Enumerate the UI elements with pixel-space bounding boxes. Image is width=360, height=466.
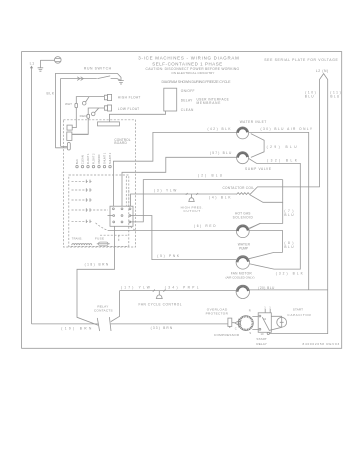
wire hot gas feeder (6) RED xyxy=(108,229,237,231)
wire L1 vertical feeder xyxy=(31,67,33,324)
svg-text:WATER INLET: WATER INLET xyxy=(240,120,267,124)
start capacitor xyxy=(271,308,311,328)
wire (30) BLU air only xyxy=(249,132,309,290)
svg-text:CLEAN: CLEAN xyxy=(81,155,85,164)
board internal dashed wiring xyxy=(96,223,108,230)
board pin connectors P1-P7 with labels xyxy=(75,152,112,168)
wire L2 loop xyxy=(270,74,328,334)
svg-text:840002058 REV03: 840002058 REV03 xyxy=(303,342,340,346)
svg-text:RELAY: RELAY xyxy=(256,342,266,346)
svg-text:S: S xyxy=(249,331,251,335)
user interface membrane xyxy=(164,88,229,112)
svg-text:(AIR COOLED ONLY): (AIR COOLED ONLY) xyxy=(226,275,255,279)
svg-text:10: 10 xyxy=(261,332,264,336)
svg-text:(33) BRN: (33) BRN xyxy=(151,326,173,330)
contactor coil xyxy=(223,180,320,203)
label (10) BLU xyxy=(305,90,316,98)
svg-text:BLU: BLU xyxy=(284,245,294,249)
wire overload to compressor xyxy=(232,321,238,325)
svg-text:(57) BLU: (57) BLU xyxy=(210,151,232,155)
power plug symbol xyxy=(55,57,62,64)
svg-text:FLOAT 1: FLOAT 1 xyxy=(86,153,90,164)
hot gas solenoid xyxy=(233,211,254,237)
wire contactor feeder (3) YLW / (4) BLK xyxy=(131,194,237,206)
svg-text:SHUNT 2: SHUNT 2 xyxy=(108,152,112,164)
svg-text:ON ELECTRICAL CIRCUITRY: ON ELECTRICAL CIRCUITRY xyxy=(171,71,214,75)
wire water pump feeder (5) PNK xyxy=(130,216,236,260)
ground at run switch xyxy=(118,81,124,84)
wire relay stub left xyxy=(108,215,113,217)
svg-text:BLU: BLU xyxy=(330,95,339,99)
svg-text:SELF-CONTAINED 1 PHASE: SELF-CONTAINED 1 PHASE xyxy=(152,61,222,66)
overload protector xyxy=(206,308,232,329)
board connector rows xyxy=(72,180,109,223)
svg-text:SEE SERIAL PLATE FOR VOLTAGE: SEE SERIAL PLATE FOR VOLTAGE xyxy=(264,58,338,62)
svg-text:RUN SWITCH: RUN SWITCH xyxy=(84,67,112,71)
svg-text:(5) PNK: (5) PNK xyxy=(157,254,180,258)
svg-text:CUTOUT: CUTOUT xyxy=(184,209,201,213)
fan cycle control xyxy=(139,291,182,307)
svg-text:COMPRESSOR: COMPRESSOR xyxy=(214,333,240,337)
svg-text:FUSE: FUSE xyxy=(95,236,104,240)
relay block K1 xyxy=(110,206,133,226)
svg-text:BLK: BLK xyxy=(47,91,55,95)
connector block B xyxy=(67,132,88,140)
svg-text:C: C xyxy=(235,327,237,331)
svg-text:SHUNT 1: SHUNT 1 xyxy=(103,152,107,164)
svg-text:DIAGRAM SHOWN DURING FREEZE CY: DIAGRAM SHOWN DURING FREEZE CYCLE xyxy=(162,80,232,84)
svg-text:L1: L1 xyxy=(30,61,34,65)
fuse F1 xyxy=(95,236,110,245)
svg-text:(18) BRN: (18) BRN xyxy=(85,263,109,267)
wire sump valve feeder (57) BLU xyxy=(122,157,237,206)
high pressure cutout xyxy=(181,193,203,213)
svg-text:BLU: BLU xyxy=(284,213,294,217)
node L1 xyxy=(30,61,34,67)
sump valve solenoid xyxy=(237,152,272,171)
inner dashed box xyxy=(69,175,129,247)
svg-text:HIGH FLOAT: HIGH FLOAT xyxy=(118,96,141,100)
svg-text:SOLENOID: SOLENOID xyxy=(233,216,254,220)
title block text xyxy=(138,55,338,84)
svg-text:CLEAN: CLEAN xyxy=(181,108,194,112)
svg-text:PROTECTOR: PROTECTOR xyxy=(206,311,229,315)
wire (32) BLK sump to pump xyxy=(249,159,301,270)
high float switch xyxy=(72,94,140,127)
label (8) BLU xyxy=(284,241,294,249)
svg-text:FLOAT 2: FLOAT 2 xyxy=(92,153,96,164)
svg-text:START: START xyxy=(293,308,303,312)
svg-text:L2 (N): L2 (N) xyxy=(316,69,329,73)
svg-text:BLK: BLK xyxy=(75,159,79,164)
svg-text:DELAY: DELAY xyxy=(181,98,193,102)
wire fan motor right (20) BLU xyxy=(250,289,328,291)
fan motor xyxy=(226,272,255,299)
wire membrane to control board xyxy=(109,111,165,122)
wire (19) BRN xyxy=(32,323,98,325)
wire L1 to plug xyxy=(40,59,54,61)
water inlet solenoid xyxy=(237,120,267,139)
svg-text:PUMP: PUMP xyxy=(239,247,248,251)
svg-text:FAN CYCLE CONTROL: FAN CYCLE CONTROL xyxy=(139,302,182,306)
ground at L1 branch xyxy=(38,60,44,71)
start relay xyxy=(256,305,281,346)
svg-text:LOW FLOAT: LOW FLOAT xyxy=(118,107,139,111)
svg-text:MEMBRANE: MEMBRANE xyxy=(197,101,221,105)
svg-text:12: 12 xyxy=(263,317,266,321)
label (7) BLU xyxy=(284,209,294,217)
wire relay output to contacts (18) BRN xyxy=(77,226,115,325)
svg-text:(4) BLK: (4) BLK xyxy=(209,195,231,199)
wire hot gas upper diagonal xyxy=(249,223,260,228)
label (11) BLU xyxy=(330,90,341,98)
svg-text:SUMP VALVE: SUMP VALVE xyxy=(245,167,271,171)
svg-text:CONTACTOR COIL: CONTACTOR COIL xyxy=(223,186,255,190)
low float switch xyxy=(72,105,139,134)
label control board xyxy=(114,138,130,145)
wire (33) BRN xyxy=(111,323,228,325)
svg-text:(42) BLK: (42) BLK xyxy=(208,127,232,131)
svg-text:3-ICE MACHINES - WIRING DIAGRA: 3-ICE MACHINES - WIRING DIAGRAM xyxy=(138,55,239,60)
transformer TRANS xyxy=(72,236,92,245)
relay contacts xyxy=(94,291,120,331)
compressor xyxy=(214,308,254,337)
svg-text:RED: RED xyxy=(80,114,88,118)
water pump motor xyxy=(236,242,251,269)
svg-text:ON/OFF: ON/OFF xyxy=(97,154,101,165)
wire (29) BLU link xyxy=(251,134,264,158)
run switch xyxy=(55,67,121,148)
svg-text:BOARD: BOARD xyxy=(114,141,127,145)
svg-text:R: R xyxy=(249,308,251,312)
svg-text:BLU: BLU xyxy=(305,95,314,99)
svg-text:TRANS.: TRANS. xyxy=(72,236,83,240)
connector bar J1 xyxy=(98,122,120,126)
svg-text:(6) RED: (6) RED xyxy=(194,224,216,228)
svg-text:(20) BLU: (20) BLU xyxy=(258,286,275,290)
connector pill C xyxy=(55,142,70,150)
svg-text:ON/OFF: ON/OFF xyxy=(181,89,195,93)
svg-text:CONTACTS: CONTACTS xyxy=(94,309,113,313)
wire tick marks on fan wire xyxy=(153,290,166,292)
connector block A xyxy=(67,125,72,130)
wire water inlet feeder (42) BLK xyxy=(113,132,236,206)
svg-text:(3) YLW: (3) YLW xyxy=(154,189,176,193)
svg-text:WHT: WHT xyxy=(65,102,72,106)
wire compressor to start relay xyxy=(252,317,258,330)
wire (2) BLU xyxy=(130,180,283,222)
wire (7) BLU link to hot gas xyxy=(249,202,282,228)
wire (8) BLU link to water pump xyxy=(249,230,283,258)
control board outline xyxy=(63,120,135,247)
svg-text:CAPACITOR: CAPACITOR xyxy=(287,313,311,317)
svg-text:START: START xyxy=(256,337,267,341)
wire fan motor left (17) YLW / (34) PRPL xyxy=(120,290,237,292)
